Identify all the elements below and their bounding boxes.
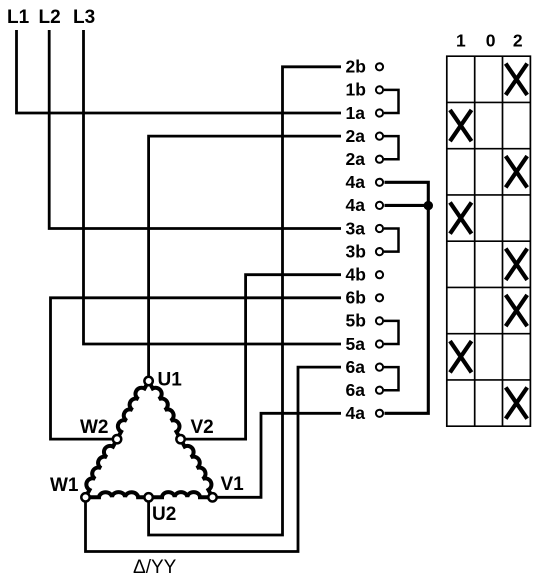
wire L3 to 5a <box>84 30 342 344</box>
svg-text:4a: 4a <box>346 172 366 192</box>
svg-text:6b: 6b <box>346 288 366 308</box>
winding coil bottom right U2-V1 <box>153 492 208 497</box>
bracket 1b-1a <box>384 90 399 113</box>
bracket 5b-5a <box>384 321 399 344</box>
bracket 3a-3b <box>384 229 399 252</box>
svg-text:1: 1 <box>456 30 466 50</box>
svg-text:4b: 4b <box>346 265 366 285</box>
winding coil bottom left W1-U2 <box>90 492 144 497</box>
svg-text:V2: V2 <box>191 417 214 438</box>
wire U1 to 2a <box>149 136 341 376</box>
svg-text:5b: 5b <box>346 311 366 331</box>
svg-text:3a: 3a <box>346 218 366 238</box>
wire U2 to 2b <box>149 67 341 535</box>
svg-text:1a: 1a <box>346 103 366 123</box>
X mark row3 col2 <box>506 156 528 187</box>
wire 4a terminal 6 right riser <box>385 182 429 413</box>
X mark row4 col1 <box>450 202 472 233</box>
wire L2 to 3a <box>49 30 341 229</box>
node U1 <box>144 377 152 385</box>
wire W1 to 6a <box>86 367 342 551</box>
svg-text:W2: W2 <box>80 417 109 438</box>
svg-text:U2: U2 <box>152 504 176 525</box>
wire 4a terminal 7 stub <box>385 204 429 207</box>
bracket 2a-2a <box>384 136 399 159</box>
X mark row7 col1 <box>450 341 472 372</box>
svg-text:2a: 2a <box>346 126 366 146</box>
svg-text:6a: 6a <box>346 357 366 377</box>
svg-text:3b: 3b <box>346 241 366 261</box>
wire V2 to 4b <box>185 275 341 439</box>
switch table grid <box>447 56 531 426</box>
junction dot 4a net <box>424 201 433 210</box>
node W1 <box>81 493 89 501</box>
winding coil left upper W2-U1 <box>118 385 147 435</box>
svg-text:6a: 6a <box>346 380 366 400</box>
svg-text:Δ/YY: Δ/YY <box>133 557 177 578</box>
winding coil right upper U1-V2 <box>151 385 180 435</box>
wire W2 to 6b <box>51 298 342 439</box>
wire V1 to 4a <box>217 413 341 497</box>
svg-text:5a: 5a <box>346 334 366 354</box>
X mark row1 col2 <box>506 64 528 95</box>
node W2 <box>113 435 121 443</box>
X mark row5 col2 <box>506 249 528 280</box>
svg-text:L1: L1 <box>7 7 30 28</box>
svg-text:V1: V1 <box>221 474 245 495</box>
winding coil left lower W1-W2 <box>86 443 115 493</box>
svg-text:1b: 1b <box>346 80 366 100</box>
svg-text:L2: L2 <box>39 7 61 28</box>
svg-text:2: 2 <box>513 30 523 50</box>
svg-text:U1: U1 <box>158 370 183 391</box>
node U2 <box>144 493 152 501</box>
svg-text:2b: 2b <box>346 57 366 77</box>
svg-text:0: 0 <box>486 30 496 50</box>
X mark row2 col1 <box>450 110 472 141</box>
svg-text:4a: 4a <box>346 403 366 423</box>
svg-text:2a: 2a <box>346 149 366 169</box>
X mark row6 col2 <box>506 295 528 326</box>
svg-text:W1: W1 <box>50 475 79 496</box>
svg-text:L3: L3 <box>73 7 95 28</box>
svg-text:4a: 4a <box>346 195 366 215</box>
wire L1 to 1a <box>17 30 342 113</box>
node V2 <box>176 435 184 443</box>
bracket 6a-6a <box>384 367 399 390</box>
X mark row8 col2 <box>506 387 528 418</box>
winding coil right lower V2-V1 <box>183 443 212 493</box>
node V1 <box>208 493 216 501</box>
